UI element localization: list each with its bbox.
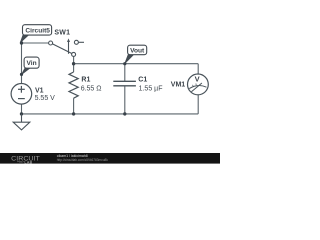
wire top rail horizontal — [74, 63, 199, 65]
junction R1 bottom — [72, 112, 75, 115]
junction node Vin — [20, 73, 23, 76]
switch SW1 — [49, 38, 84, 56]
wire C1 bottom lead — [124, 86, 126, 114]
svg-text:1.55 µF: 1.55 µF — [139, 85, 163, 92]
junction node Circuit5 — [20, 41, 23, 44]
footer bar — [0, 153, 220, 164]
wire R1 top lead — [73, 64, 75, 72]
node flag Vout — [125, 45, 147, 63]
wire VM1 bottom lead — [197, 95, 199, 114]
node flag Circuit5 — [20, 25, 51, 43]
svg-text:Vin: Vin — [27, 60, 37, 67]
svg-text:SW1: SW1 — [54, 30, 70, 37]
wire R1 bottom lead — [73, 98, 75, 114]
svg-text:Circuit5: Circuit5 — [25, 28, 50, 35]
svg-text:R1: R1 — [81, 76, 90, 83]
svg-text:LAB: LAB — [24, 160, 32, 164]
wire C1 top lead (Vout node down to cap) — [124, 64, 126, 81]
junction C1 bottom — [123, 112, 126, 115]
wire VM1 top lead — [197, 64, 199, 74]
node flag Vin — [22, 57, 39, 74]
footer logo LAB — [17, 161, 24, 163]
capacitor C1 — [113, 81, 136, 86]
wire SW1 bottom terminal down to top rail — [73, 56, 75, 63]
resistor R1 — [69, 72, 78, 98]
svg-text:Vout: Vout — [130, 48, 145, 55]
svg-text:V: V — [195, 75, 200, 84]
ground — [13, 114, 30, 130]
svg-text:V1: V1 — [35, 88, 44, 95]
voltage source V1 — [11, 84, 32, 105]
svg-text:6.55 Ω: 6.55 Ω — [81, 85, 102, 92]
wire V1 bottom to ground junction — [21, 104, 23, 114]
svg-text:VM1: VM1 — [171, 81, 186, 88]
wire bottom rail horizontal — [22, 113, 199, 115]
svg-text:C1: C1 — [138, 76, 147, 83]
junction node Vout — [123, 62, 126, 65]
wire left rail vertical (corner down to V1 top) — [21, 43, 23, 84]
svg-text:5.55 V: 5.55 V — [35, 95, 56, 102]
junction R1 top — [72, 62, 75, 65]
wire top-left horizontal (node Circuit5 to SW1 left terminal) — [22, 42, 49, 44]
junction ground node — [20, 112, 23, 115]
voltmeter VM1 — [188, 74, 209, 95]
svg-text:http://circuitlab.com/c5946783: http://circuitlab.com/c5946783mcu8k — [57, 158, 108, 162]
